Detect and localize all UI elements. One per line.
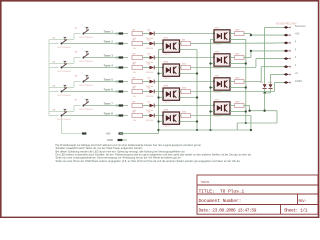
svg-text:Sheet: 1/1: Sheet: 1/1 (284, 208, 308, 214)
svg-text:PC817: PC817 (164, 54, 171, 56)
svg-text:GND1: GND1 (295, 79, 303, 83)
svg-text:BUTTON-6x6: BUTTON-6x6 (58, 95, 72, 97)
svg-text:PC817: PC817 (164, 78, 171, 80)
svg-text:Taste 1: Taste 1 (104, 30, 114, 34)
svg-text:PC817: PC817 (164, 102, 171, 104)
svg-text:Taste 2: Taste 2 (104, 40, 114, 44)
svg-text:OK7: OK7 (215, 100, 220, 102)
svg-text:1N4148: 1N4148 (146, 96, 154, 98)
svg-text:BUTTON-6x6: BUTTON-6x6 (80, 37, 94, 39)
svg-text:1N4148: 1N4148 (146, 72, 154, 74)
svg-text:REV:: REV: (299, 200, 307, 204)
svg-text:TM9US: TM9US (201, 180, 210, 184)
svg-text:Taste 6: Taste 6 (104, 88, 114, 92)
svg-text:OK5: OK5 (215, 76, 220, 78)
svg-text:BUTTON-6x6: BUTTON-6x6 (80, 109, 94, 111)
svg-text:Taste 3: Taste 3 (104, 54, 114, 58)
svg-text:BUTTON-6x6: BUTTON-6x6 (80, 61, 94, 63)
svg-text:Taste 7: Taste 7 (104, 102, 114, 106)
svg-text:+5V: +5V (106, 132, 111, 136)
svg-text:Document Number:: Document Number: (199, 198, 242, 204)
svg-text:Stufe nun eine Strom der GND W: Stufe nun eine Strom der GND Werte seite… (56, 159, 241, 163)
svg-text:Date: 23.08.2006 13:47:59: Date: 23.08.2006 13:47:59 (199, 208, 257, 214)
svg-text:BUTTON-6x6: BUTTON-6x6 (80, 85, 94, 87)
svg-text:PC817: PC817 (164, 126, 171, 128)
svg-text:1N4148: 1N4148 (146, 120, 154, 122)
svg-text:Summer: Summer (295, 24, 306, 28)
svg-text:BUTTON-6x6: BUTTON-6x6 (58, 71, 72, 73)
svg-text:OK1: OK1 (215, 28, 220, 30)
svg-text:Taste 5: Taste 5 (104, 78, 114, 82)
svg-text:GND: GND (107, 138, 113, 142)
svg-text:OK2: OK2 (164, 38, 169, 40)
svg-text:BUTTON-6x6: BUTTON-6x6 (58, 47, 72, 49)
svg-text:PC817: PC817 (215, 92, 222, 94)
svg-text:OK8: OK8 (164, 110, 169, 112)
svg-text:PC817: PC817 (215, 44, 222, 46)
svg-text:PC817: PC817 (215, 116, 222, 118)
svg-text:KEYBOARDCONN: KEYBOARDCONN (276, 23, 297, 26)
svg-text:OK6: OK6 (164, 86, 169, 88)
svg-text:TITLE: T8 Plus.1: TITLE: T8 Plus.1 (199, 189, 245, 195)
svg-text:Taste 4: Taste 4 (104, 64, 114, 68)
svg-text:PC817: PC817 (215, 68, 222, 70)
svg-text:OK4: OK4 (164, 62, 169, 64)
svg-text:1N4148: 1N4148 (146, 48, 154, 50)
svg-text:BUTTON-6x6: BUTTON-6x6 (58, 119, 72, 121)
svg-text:OK3: OK3 (215, 52, 220, 54)
svg-text:+5V: +5V (295, 32, 300, 36)
svg-text:Taste 8: Taste 8 (104, 112, 114, 116)
svg-text:+C: +C (295, 71, 299, 75)
